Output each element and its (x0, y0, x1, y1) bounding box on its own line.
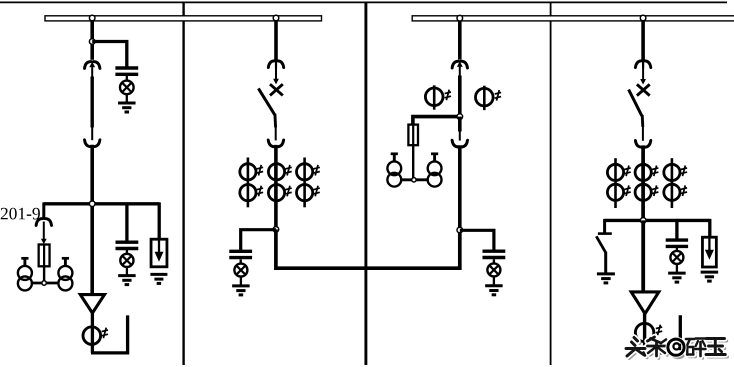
wire P3 lower (458, 145, 462, 230)
hash sensor right P3 (495, 90, 501, 101)
drawout contact upper P4 (635, 61, 650, 69)
arrow into fuse P1 (41, 239, 47, 245)
node on busbar P3 (457, 15, 463, 21)
CT ring TA4r2b (635, 184, 651, 200)
CT ring TA4out (635, 323, 653, 341)
wire arrester branch P1 (158, 202, 161, 240)
CT ring TA1 (83, 327, 101, 345)
node PT junction P1 (42, 281, 46, 285)
arrow onto breaker P4 (640, 79, 646, 85)
hash TA4r2c (681, 185, 687, 196)
hash TA4out (656, 325, 662, 336)
hash TA2r1b (285, 165, 291, 176)
wire cap branch P2 (241, 230, 276, 250)
cable exit bracket P1 (91, 315, 128, 353)
CT ring TA4r2a (607, 184, 623, 200)
node PT junction P3 (412, 178, 416, 182)
hash TA2r1c (313, 165, 319, 176)
CT stub line P4-0 (614, 158, 617, 208)
wire C1 to lamp (126, 76, 128, 82)
CT ring TA2r2b (268, 185, 284, 201)
node on busbar P2 (273, 15, 279, 21)
lamp HL4 (670, 251, 683, 264)
panel divider 1 (182, 2, 184, 365)
surge arrester F4 (702, 237, 716, 267)
wire PT interconnect P3 (401, 178, 428, 181)
ground P3 (485, 286, 503, 295)
capacitor C2 (229, 251, 252, 257)
hash TA4r2b (652, 185, 658, 196)
surge arrester F1 (151, 239, 167, 267)
contact stem P4 (642, 68, 644, 79)
wire C1b to lamp (126, 250, 128, 255)
wire bus dropper P2 (274, 18, 278, 60)
node P1 upper tap (89, 39, 95, 45)
wire PT branch drop P1 (42, 202, 45, 218)
breaker blade P4 (629, 90, 642, 116)
wire blade to pin P2 (273, 114, 277, 128)
hash TA2r2b (285, 186, 291, 197)
top border line (0, 1, 727, 3)
wire horizontal branch P1 (44, 202, 160, 205)
drawout contact lower P3 (452, 140, 467, 147)
ground P1b (118, 276, 135, 285)
voltage transformer TV3a (387, 154, 401, 187)
node P1 branch junction (89, 201, 95, 207)
cable termination triangle P4 (631, 292, 659, 314)
node P2 lower junction (273, 227, 279, 233)
node P4 junction (640, 218, 646, 224)
lamp HL1 (charged display) (120, 81, 134, 95)
earth switch blade P4 (596, 236, 605, 252)
wire triangle to bracket P1 (91, 312, 94, 353)
CT ring TA4r2c (664, 184, 680, 200)
panel divider 2 (364, 2, 367, 365)
hash TA4r1c (681, 166, 687, 177)
lamp HL2 (234, 264, 247, 277)
CT ring TA2r1c (297, 164, 313, 180)
sensor ring right P3 (476, 86, 494, 110)
wire C3 to lamp (493, 259, 495, 264)
node on busbar P1 (89, 15, 95, 21)
drawout contact upper P2 (268, 61, 283, 69)
wire P4 main drop upper (641, 145, 645, 221)
breaker blade P2 (258, 88, 274, 114)
drawout contact lower P1 (85, 140, 100, 147)
hash TA2r2a (257, 186, 263, 197)
wire lamp to ground P1a (126, 94, 128, 104)
capacitor C1b (116, 242, 139, 248)
wire C2 to lamp (240, 259, 242, 264)
capacitor C3 (483, 251, 506, 257)
CT ring TA2r2c (297, 185, 313, 201)
wire fuse to PT bus P1 (43, 266, 45, 283)
wire blade to pin P4 (641, 115, 644, 127)
wire earth-switch drop P4 (603, 219, 606, 233)
wire P2 main drop (274, 145, 278, 230)
hash TA4r1a (624, 166, 630, 177)
contact pin P3 (459, 131, 461, 141)
wire distribution P4 (605, 219, 710, 222)
busbar W2 (412, 16, 734, 21)
sensor ring left P3 (425, 85, 443, 109)
wire PT branch P3 (413, 117, 460, 125)
node on busbar P4 (640, 15, 646, 21)
hash sensor left P3 (445, 90, 451, 101)
wire lamp to ground P2 (240, 277, 242, 287)
wire triangle to bracket P4 (643, 313, 646, 353)
panel divider 3 (550, 2, 552, 365)
voltage transformer TV1a (18, 258, 32, 290)
node P3 upper junction (457, 114, 463, 120)
ground P4b (668, 273, 686, 282)
drawout contact lower P2 (268, 140, 283, 147)
wire cap branch P3 (460, 230, 494, 250)
wire PT interconnect P1 (32, 282, 59, 285)
hash TA4r1b (652, 166, 658, 177)
drawout contact upper P1 (85, 62, 100, 69)
wire inter-panel tie (276, 229, 460, 268)
capacitor C1 (live-line indicator coupling) (115, 68, 138, 74)
CT ring TA2r2a (240, 185, 256, 201)
CT ring TA4r1b (635, 164, 651, 180)
arrow onto breaker P2 (273, 79, 279, 85)
voltage transformer TV3b (428, 154, 442, 187)
wire bus dropper P1 (90, 18, 94, 60)
drawout contact lower P4 (635, 140, 650, 147)
CT ring TA2r1a (240, 164, 256, 180)
cable termination triangle P1 (80, 295, 104, 313)
voltage transformer TV1b (58, 258, 72, 290)
hash TA2r2c (313, 186, 319, 197)
CT stub line P2-1 (303, 158, 306, 208)
contact stem P2 (275, 68, 277, 79)
hash TA4r2a (624, 185, 630, 196)
node P3 lower junction (457, 227, 463, 233)
wire P1 between contacts (91, 67, 93, 127)
hash TA1 (102, 328, 108, 339)
CT ring TA2r1b (268, 164, 284, 180)
wire lamp to ground P1b (126, 267, 128, 276)
wire fuse to PT bus P3 (412, 145, 414, 180)
earth switch contact bar P4 (598, 232, 612, 235)
wire blade to ground P4 (604, 252, 607, 274)
drawout contact upper P3 (452, 61, 467, 68)
fuse FU1 (39, 244, 50, 267)
drawout contact PT branch P1 (36, 219, 51, 226)
wire P3 mid (458, 117, 462, 132)
label 201-9 (1, 208, 40, 220)
hash TA2r1a (257, 165, 263, 176)
wire cap branch P1b (125, 204, 128, 241)
breaker contact X P4 (637, 84, 650, 95)
ground P4a (597, 274, 615, 283)
wire C4 to lamp (676, 248, 678, 252)
wire P4 to triangle (641, 220, 645, 292)
wire tap to capacitor branch P1 (92, 42, 127, 67)
breaker contact X P2 (270, 84, 283, 95)
wire bus dropper P4 (641, 18, 645, 60)
ground P1c (150, 274, 167, 283)
lamp HL1b (120, 254, 133, 267)
contact pin lower P2 (275, 127, 277, 140)
wire cap branch P4 (675, 219, 678, 239)
wire arrester branch P4 (708, 219, 711, 238)
fuse FU3 (408, 124, 418, 146)
contact pin P1 lower (91, 127, 93, 140)
wire lamp to ground P3 (493, 276, 495, 286)
contact pin lower P4 (642, 126, 644, 140)
CT stub line P4-1 (671, 158, 674, 208)
CT ring TA4r1a (607, 164, 623, 180)
ground P2 (232, 286, 250, 295)
CT ring TA4r1c (664, 164, 680, 180)
cable exit bracket P4 (643, 315, 680, 353)
lamp HL3 (487, 263, 500, 276)
contact pin PT branch P1 (43, 222, 45, 240)
CT stub line P2-0 (247, 158, 250, 208)
wire bus dropper P3 (458, 18, 462, 60)
ground P4c (701, 272, 719, 281)
wire P1 main drop (90, 145, 94, 296)
watermark text (626, 337, 728, 359)
capacitor C4 (666, 240, 688, 246)
wire P3 upper (459, 67, 461, 117)
wire lamp to ground P4b (676, 264, 678, 274)
busbar W1 (45, 16, 322, 21)
ground P1a (118, 103, 136, 112)
